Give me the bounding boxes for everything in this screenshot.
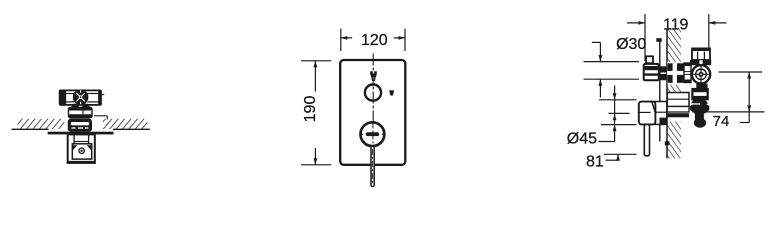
dim 81 arrow and leader [616,154,620,161]
svg-text:190: 190 [302,96,319,123]
dim O45 extension lines [599,99,637,101]
valve body box below wall [68,134,95,162]
body connector lines [73,134,75,143]
cartridge base box [69,107,93,117]
screw hole [79,148,84,153]
handle left cap [60,90,67,106]
svg-text:74: 74 [713,113,730,130]
escutcheon plate bar [48,132,114,135]
shower icon [389,90,394,95]
escutcheon plate edge-on [659,39,661,142]
dim 119 arrows [627,22,645,24]
svg-text:119: 119 [663,17,689,34]
mixer knob [361,122,385,146]
ring box [692,89,707,99]
svg-text:120: 120 [361,32,388,49]
diverter knob body [644,64,659,80]
stem below circle [696,84,707,89]
dim 120 extension lines [340,29,342,51]
handle neck upper [655,102,667,125]
wall surface line right [113,128,150,130]
dim 120 arrows [341,37,352,39]
plate [340,60,405,165]
dim 81 extension line [604,153,637,155]
handle hub [73,89,89,105]
diverter button [370,71,377,77]
lever handle block [639,102,656,125]
collar [690,60,711,65]
stub line right of handle [101,94,104,96]
dim 74 extension lines [719,71,763,73]
lever bar [644,124,649,155]
dim O30 extension lines [584,61,640,63]
diverter knob neck [659,66,667,72]
svg-text:81: 81 [586,154,604,171]
dim 190 extension lines [301,60,331,62]
neck wedge right [82,104,90,108]
wall hatch left [18,119,65,129]
lever handle [371,146,374,186]
outlet stem [695,114,704,120]
wall left edge [666,30,668,159]
dim 74 line and arrows [748,72,750,123]
dim O45 line and arrows [614,86,616,125]
wall hatch segments [667,30,681,63]
dim 119 extension lines [644,14,646,61]
handle inner lines [66,93,74,95]
diverter circle [365,85,381,101]
ball valve circle [692,65,710,83]
inner cartridge box [72,144,91,159]
cross handle bar [60,90,101,105]
handle right cap [98,90,101,105]
body through wall at lever height [667,93,689,107]
pipe stub into wall right [94,115,107,117]
center line dashed [372,54,374,187]
union nut box [684,63,691,83]
svg-text:Ø45: Ø45 [567,130,597,147]
svg-text:Ø30: Ø30 [616,36,646,53]
wall surface line left [12,128,49,130]
wall hatch right [103,119,147,129]
neck wedge left [71,104,79,108]
flange ring [68,119,92,132]
top nut [692,48,710,60]
dim 190 line and arrows [314,61,316,92]
outlet flange diamond [690,99,709,113]
pipe through wall top [667,62,684,84]
outlet ball [694,118,706,128]
handle neck lower black [660,118,667,125]
dim O30 line and arrows [599,42,601,61]
diverter knob tip [646,56,653,63]
